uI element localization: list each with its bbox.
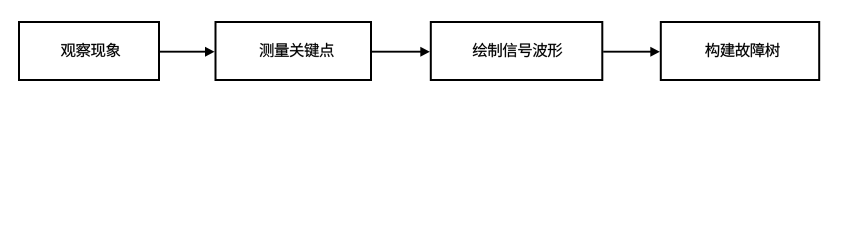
flow arrow 3: 绘制信号波形 → 构建故障树 [603,47,660,57]
label text: 构建故障树 [705,43,779,57]
label text: 测量关键点 [260,43,334,57]
label text: 观察现象 [61,43,120,57]
process box 1: 观察现象 [19,22,159,80]
process box 2: 测量关键点 [216,22,372,80]
label text: 绘制信号波形 [473,43,563,57]
flow arrow 2: 测量关键点 → 绘制信号波形 [372,47,430,57]
flow arrow 1: 观察现象 → 测量关键点 [160,47,215,57]
process box 3: 绘制信号波形 [431,22,603,80]
process box 4: 构建故障树 [661,22,819,80]
